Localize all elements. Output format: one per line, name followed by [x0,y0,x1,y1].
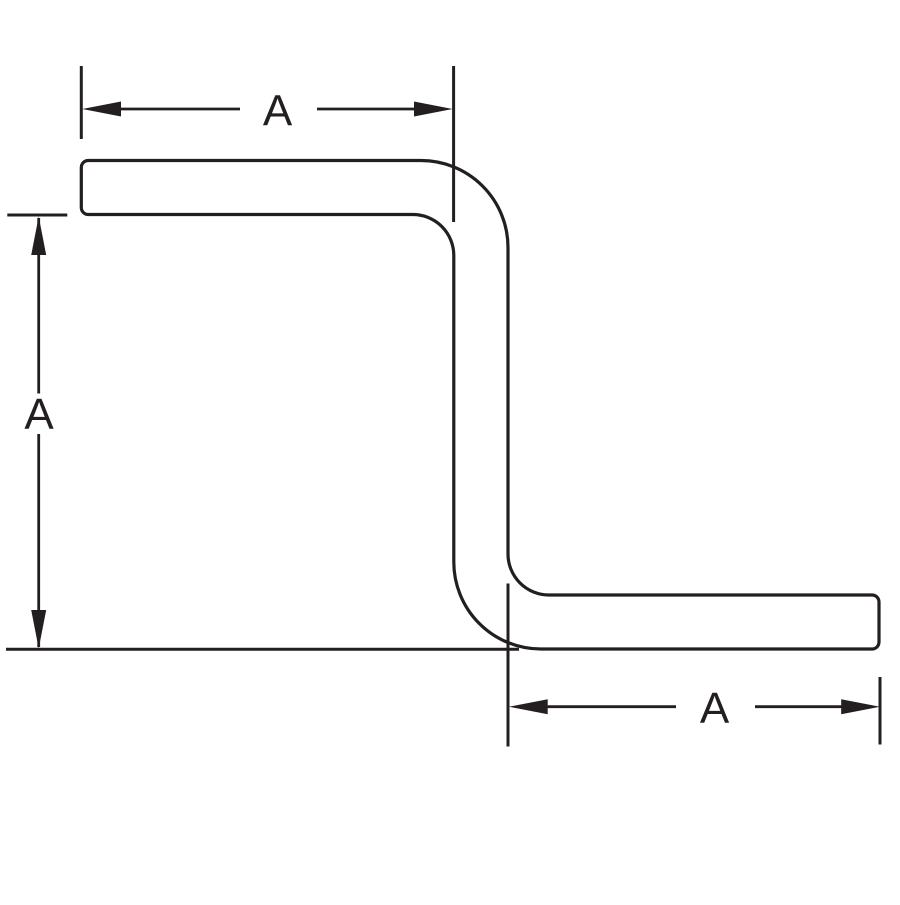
dimension A top: left extension line [80,66,83,139]
dimension A left: dimension line lower segment [37,434,40,647]
Z-bracket outline [81,161,879,650]
dimension A top: label A [263,86,293,135]
dimension A top: dimension line right segment [317,108,416,111]
dimension A top: right extension line [452,66,455,222]
dimension A bottom: left extension line [507,584,510,747]
dimension A left: top extension tick [7,214,67,217]
dimension A left: bottom extension line (long baseline) [6,648,519,651]
dimension A bottom: dimension line left segment [546,705,676,708]
dimension A left: dimension line upper segment [37,218,40,394]
svg-text:A: A [700,684,730,733]
dimension A bottom: label A [700,684,730,733]
dimension A bottom: right arrowhead [841,699,880,714]
dimension A left: up arrowhead [31,217,46,256]
svg-text:A: A [263,86,293,135]
dimension A left: down arrowhead [31,610,46,649]
dimension A top: left arrowhead [82,102,121,117]
dimension A bottom: dimension line right segment [755,705,843,708]
dimension A top: right arrowhead [414,102,453,117]
svg-text:A: A [24,390,54,439]
dimension A bottom: right extension line [879,677,882,745]
dimension A left: label A [24,390,54,439]
dimension A bottom: left arrowhead [509,699,548,714]
dimension A top: dimension line left segment [118,108,240,111]
